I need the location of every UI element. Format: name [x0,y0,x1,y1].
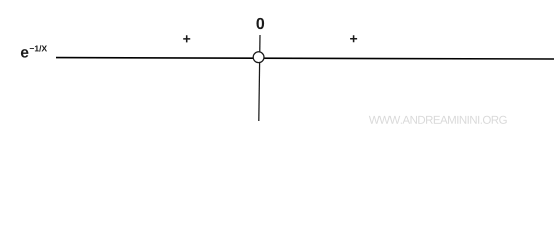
plus sign left [183,35,190,42]
open circle at origin [253,52,264,63]
horizontal axis line [56,58,554,59]
watermark www.andreaminini.org [369,116,507,124]
exponent -1/X [30,45,47,51]
label 0 above origin [256,18,264,29]
function label e [21,49,28,57]
vertical line at x=0 [259,35,260,121]
plus sign right [350,35,357,42]
